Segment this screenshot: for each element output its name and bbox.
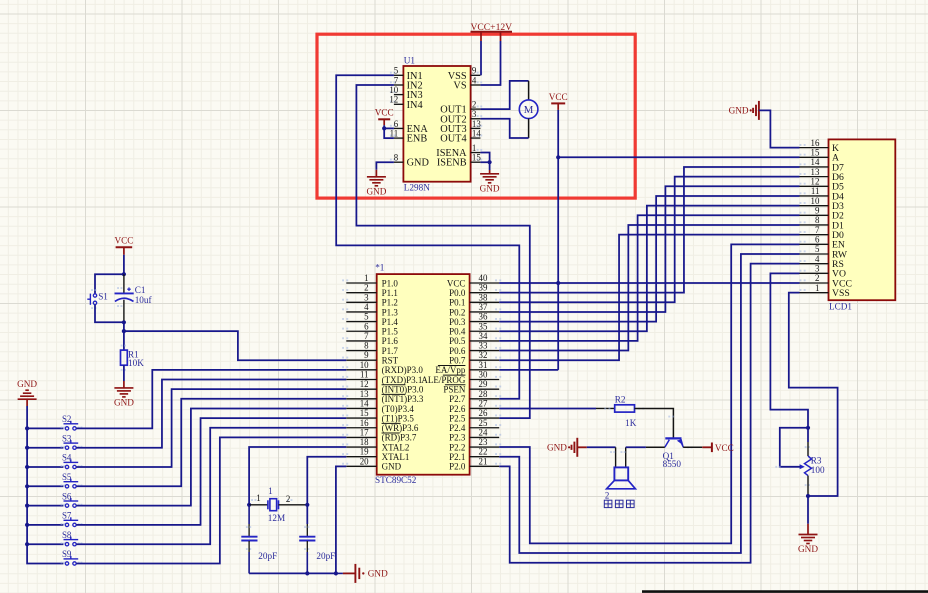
wire U1 IN2 to MCU P2.5	[356, 85, 529, 418]
svg-text:P1.1: P1.1	[382, 288, 398, 298]
svg-text:P2.1: P2.1	[449, 452, 465, 462]
wire MCU P0.4 to LCD D3	[499, 206, 799, 332]
MCU pin 28 P2.7	[470, 398, 500, 400]
svg-text:7: 7	[364, 331, 369, 341]
svg-text:39: 39	[479, 283, 488, 293]
LCD1 pin 7 D0	[800, 234, 829, 236]
MCU pin 12 (INT0)P3.0	[346, 388, 376, 390]
svg-text:2: 2	[472, 100, 476, 110]
ground symbol at buzzer	[576, 438, 578, 457]
wire rail to S7	[27, 524, 63, 526]
junction node rail S3	[25, 446, 29, 450]
svg-text:10uf: 10uf	[135, 295, 153, 305]
svg-text:ENB: ENB	[407, 134, 428, 145]
LCD1 pin 11 D4	[800, 195, 829, 197]
svg-text:S9: S9	[62, 549, 72, 559]
wire MCU P0.0 to LCD D7	[499, 167, 799, 293]
resistor R2 body	[615, 405, 635, 412]
svg-text:35: 35	[479, 321, 488, 331]
svg-text:5: 5	[815, 244, 820, 254]
junction node rail MCU GND	[334, 571, 338, 575]
junction node crystal pin2	[305, 503, 309, 507]
svg-text:8550: 8550	[663, 459, 682, 469]
transistor Q1 8550	[665, 437, 681, 439]
wire switch ground rail	[27, 406, 63, 564]
svg-text:1: 1	[472, 143, 476, 153]
svg-text:P1.4: P1.4	[382, 317, 399, 327]
wire VCC to U1 ENB	[384, 128, 394, 138]
svg-text:29: 29	[479, 379, 488, 389]
svg-text:R3: R3	[811, 455, 822, 465]
svg-text:14: 14	[360, 398, 369, 408]
U1 pin 14 OUT4	[471, 137, 481, 139]
junction node rail S6	[25, 504, 29, 508]
wire U1 OUT2 to motor bottom	[480, 119, 528, 138]
capacitor C1 bottom lead	[123, 300, 125, 323]
ground symbol below R1	[123, 381, 125, 388]
svg-text:P2.6: P2.6	[449, 404, 466, 414]
svg-text:GND: GND	[407, 158, 430, 169]
U1 pin 8 GND	[394, 161, 404, 163]
svg-text:17: 17	[360, 427, 369, 437]
wire rail to S8	[27, 543, 63, 545]
ground symbol at switch rail (inverted)	[18, 398, 37, 400]
wire R3 top to wiper	[780, 428, 808, 467]
switch S2	[65, 427, 68, 430]
MCU pin 37 P0.2	[470, 311, 500, 313]
svg-text:40: 40	[479, 273, 488, 283]
svg-text:10K: 10K	[128, 358, 144, 368]
svg-text:VCC: VCC	[375, 108, 394, 118]
wire VCC+12V to U1 VSS pin 9	[480, 41, 482, 75]
wire MCU P0.1 to LCD D6	[499, 177, 799, 303]
U1 pin 7 IN2	[394, 84, 404, 86]
switch S5	[65, 485, 68, 488]
svg-text:GND: GND	[114, 398, 134, 408]
U1 pin 9 VSS	[471, 74, 481, 76]
svg-text:25: 25	[479, 418, 488, 428]
LCD1 pin 6 EN	[800, 243, 829, 245]
MCU pin 17 (RD)P3.7	[346, 436, 376, 438]
svg-text:5: 5	[364, 312, 369, 322]
svg-text:(INT1)P3.3: (INT1)P3.3	[382, 394, 424, 404]
svg-text:14: 14	[811, 157, 820, 167]
potentiometer R3 body	[807, 428, 809, 442]
svg-text:13: 13	[360, 389, 369, 399]
svg-text:13: 13	[472, 119, 481, 129]
svg-text:20: 20	[360, 456, 369, 466]
svg-text:P1.6: P1.6	[382, 336, 399, 346]
svg-text:15: 15	[811, 147, 820, 157]
svg-text:7: 7	[815, 225, 820, 235]
svg-text:36: 36	[479, 312, 488, 322]
MCU pin 27 P2.6	[470, 407, 500, 409]
wire VCC row MCU pin40 to LCD VCC pin2	[499, 282, 799, 284]
power port VCC at Q1	[702, 446, 712, 448]
wire VCC to MCU EA/Vpp pin 31	[499, 369, 558, 371]
junction node VCC/ENA/ENB	[382, 126, 386, 130]
LCD1 pin 14 D7	[800, 166, 829, 168]
svg-text:(T0)P3.4: (T0)P3.4	[382, 404, 415, 414]
svg-text:2: 2	[364, 283, 368, 293]
LCD1 pin 8 D1	[800, 224, 829, 226]
U1 pin 11 ENB	[394, 137, 404, 139]
svg-text:2: 2	[815, 273, 819, 283]
wire R3 bottom to LCD VSS pin1	[789, 293, 838, 496]
svg-text:100: 100	[811, 465, 825, 475]
svg-text:P0.7: P0.7	[449, 356, 466, 366]
MCU pin 38 P0.1	[470, 301, 500, 303]
svg-text:20pF: 20pF	[316, 551, 335, 561]
svg-text:1: 1	[815, 283, 819, 293]
svg-text:ISENB: ISENB	[437, 158, 467, 169]
wire U1 IN1 to MCU P2.7	[336, 75, 519, 399]
LCD1 body	[829, 139, 896, 300]
svg-text:GND: GND	[368, 569, 388, 579]
svg-text:34: 34	[479, 331, 488, 341]
wire S9 to MCU P3.7	[76, 437, 346, 563]
svg-text:16: 16	[360, 418, 369, 428]
wire MCU XTAL1 pin19 to crystal	[307, 457, 346, 505]
svg-text:16: 16	[811, 138, 820, 148]
MCU pin 40 VCC	[470, 282, 500, 284]
wire S7 to MCU P3.5	[76, 418, 346, 525]
wire R1 to ground	[123, 365, 125, 381]
svg-text:28: 28	[479, 389, 488, 399]
svg-text:P1.2: P1.2	[382, 298, 398, 308]
svg-text:15: 15	[360, 408, 369, 418]
MCU pin 3 P1.2	[346, 301, 376, 303]
microcontroller U2 body (STC89C52)	[377, 274, 470, 475]
buzzer left lead	[615, 447, 617, 467]
junction node S1/C1 top	[122, 272, 126, 276]
switch S6	[65, 504, 68, 507]
svg-text:13: 13	[811, 167, 820, 177]
svg-text:15: 15	[472, 153, 481, 163]
MCU pin 10 (RXD)P3.0	[346, 369, 376, 371]
svg-text:9: 9	[815, 206, 820, 216]
svg-text:(TXD)P3.1: (TXD)P3.1	[382, 375, 423, 385]
crystal Y1 right lead	[279, 504, 308, 506]
svg-text:M: M	[524, 104, 534, 116]
switch S3	[65, 446, 68, 449]
U1 pin 6 ENA	[394, 127, 404, 129]
svg-text:12: 12	[389, 95, 398, 105]
MCU pin 18 XTAL2	[346, 446, 376, 448]
wire LCD VO pin3 to R3 top	[770, 273, 808, 427]
ground symbol at oscillator rail	[354, 564, 356, 583]
motor M top lead	[528, 81, 530, 100]
wire LCD RS pin4 to MCU P2.0	[499, 264, 799, 563]
crystal Y1 body 12M	[267, 500, 269, 509]
svg-text:10: 10	[811, 196, 820, 206]
U1 pin 13 OUT3	[471, 127, 481, 129]
capacitor C2 top lead	[248, 505, 250, 524]
MCU pin 23 P2.2	[470, 446, 500, 448]
svg-text:2: 2	[286, 494, 290, 504]
LCD1 pin 10 D3	[800, 205, 829, 207]
svg-text:(WR)P3.6: (WR)P3.6	[382, 423, 419, 433]
capacitor C3 bottom lead	[306, 541, 308, 552]
MCU pin 7 P1.6	[346, 340, 376, 342]
U1 pin 2 OUT1	[471, 108, 481, 110]
junction node rail S5	[25, 484, 29, 488]
svg-text:P2.7: P2.7	[449, 394, 466, 404]
svg-text:4: 4	[364, 302, 369, 312]
ground symbol at LCD backlight K	[758, 101, 760, 120]
svg-text:(RD)P3.7: (RD)P3.7	[382, 433, 417, 443]
wire MCU P2.6 to R2	[499, 407, 596, 409]
svg-text:P2.2: P2.2	[449, 442, 465, 452]
MCU pin 31 EA/Vpp	[470, 369, 500, 371]
MCU pin 24 P2.3	[470, 436, 500, 438]
MCU pin 35 P0.4	[470, 330, 500, 332]
wire node to RST branch node	[123, 322, 125, 331]
U1 pin 15 ISENB	[471, 161, 481, 163]
svg-text:VCC: VCC	[549, 92, 568, 102]
R3 wiper arrow	[800, 464, 805, 469]
svg-text:P0.6: P0.6	[449, 346, 466, 356]
LCD1 pin 5 RW	[800, 253, 829, 255]
LCD1 pin 13 D6	[800, 176, 829, 178]
svg-text:P0.0: P0.0	[449, 288, 466, 298]
switch S7	[65, 523, 68, 526]
motor M bottom lead	[528, 119, 530, 139]
svg-text:6: 6	[815, 235, 820, 245]
svg-text:S4: S4	[62, 453, 72, 463]
svg-text:(RXD)P3.0: (RXD)P3.0	[382, 365, 424, 375]
svg-text:EA/Vpp: EA/Vpp	[435, 365, 465, 375]
svg-text:30: 30	[479, 370, 488, 380]
wire oscillator ground rail	[249, 572, 336, 574]
svg-text:20pF: 20pF	[258, 551, 277, 561]
junction node rail S7	[25, 523, 29, 527]
svg-text:OUT4: OUT4	[440, 134, 466, 145]
wire rail to S3	[27, 447, 63, 449]
svg-text:VCC: VCC	[447, 278, 466, 288]
wire RST node to MCU RST pin 9	[124, 331, 346, 360]
svg-text:STC89C52: STC89C52	[375, 475, 417, 485]
junction node VCC/LCD-A wire	[556, 155, 560, 159]
svg-text:PSEN: PSEN	[443, 384, 466, 394]
junction node rail S2	[25, 426, 29, 430]
wire MCU P0.6 to LCD D1	[499, 225, 799, 351]
wire ISENB node down to ground	[480, 162, 489, 170]
wire ground to LCD K pin16	[759, 110, 800, 147]
svg-text:9: 9	[472, 66, 477, 76]
LCD1 pin 1 VSS	[800, 292, 829, 294]
svg-text:(T1)P3.5: (T1)P3.5	[382, 413, 415, 423]
capacitor C1 (electrolytic)	[115, 292, 134, 294]
MCU pin 26 P2.5	[470, 417, 500, 419]
svg-text:12: 12	[360, 379, 369, 389]
svg-text:3: 3	[472, 109, 477, 119]
MCU pin 16 (WR)P3.6	[346, 427, 376, 429]
resistor R1 body	[121, 350, 128, 365]
wire S3 to MCU P3.1	[76, 380, 346, 448]
LCD1 pin 15 A	[800, 156, 829, 158]
wire Q1 emitter to VCC port	[683, 446, 702, 448]
svg-text:GND: GND	[382, 462, 402, 472]
svg-text:S8: S8	[62, 530, 72, 540]
wire MCU XTAL2 pin18 to crystal	[249, 447, 346, 505]
wire VCC+12V to U1 VS pin 4	[480, 41, 500, 85]
junction node RST branch	[122, 329, 126, 333]
svg-text:31: 31	[479, 360, 488, 370]
switch S8	[65, 543, 68, 546]
wire VCC down to S1/C1 node	[123, 255, 125, 274]
svg-text:LCD1: LCD1	[829, 302, 852, 312]
MCU pin 6 P1.5	[346, 330, 376, 332]
svg-text:2: 2	[605, 491, 609, 501]
svg-text:P0.1: P0.1	[449, 298, 465, 308]
svg-text:3: 3	[815, 264, 820, 274]
svg-text:P1.5: P1.5	[382, 327, 399, 337]
buzzer value label (Chinese)	[604, 500, 612, 507]
wire node to R1	[123, 331, 125, 350]
U1 pin 1 ISENA	[471, 152, 481, 154]
wire U1 OUT1 to motor top	[480, 81, 528, 109]
svg-text:3: 3	[364, 292, 369, 302]
buzzer right lead	[625, 447, 627, 467]
svg-text:12: 12	[811, 177, 820, 187]
wire buzzer pin 2 to Q1 collector	[626, 446, 646, 448]
switch S9	[65, 562, 68, 565]
MCU pin 34 P0.5	[470, 340, 500, 342]
svg-text:*1: *1	[375, 263, 385, 273]
wire rail to S4	[27, 466, 63, 468]
svg-text:6: 6	[394, 119, 399, 129]
svg-text:23: 23	[479, 437, 488, 447]
svg-text:24: 24	[479, 427, 488, 437]
svg-text:7: 7	[394, 75, 399, 85]
U1 pin 3 OUT2	[471, 118, 481, 120]
svg-text:GND: GND	[729, 106, 749, 116]
junction node crystal pin1	[247, 503, 251, 507]
wire MCU GND pin20 to rail	[336, 466, 346, 573]
svg-text:1K: 1K	[625, 418, 637, 428]
svg-text:18: 18	[360, 437, 369, 447]
wire S6 to MCU P3.4	[76, 408, 346, 505]
svg-text:12M: 12M	[268, 513, 285, 523]
LCD1 pin 16 K	[800, 147, 829, 149]
svg-text:P2.5: P2.5	[449, 413, 466, 423]
wire VCC vertical rail	[557, 110, 559, 370]
junction node R3 top	[806, 426, 810, 430]
svg-text:P0.5: P0.5	[449, 336, 466, 346]
LCD1 pin 2 VCC	[800, 282, 829, 284]
svg-text:32: 32	[479, 350, 488, 360]
svg-text:22: 22	[479, 447, 488, 457]
MCU pin 15 (T1)P3.5	[346, 417, 376, 419]
svg-text:11: 11	[360, 370, 369, 380]
ground symbol at U1 ISEN pins	[489, 170, 491, 174]
svg-text:8: 8	[394, 153, 399, 163]
svg-text:IN4: IN4	[407, 100, 423, 111]
svg-text:8: 8	[815, 215, 820, 225]
wire S8 to MCU P3.6	[76, 428, 346, 544]
red highlight rectangle	[317, 34, 635, 198]
junction node rail C3	[305, 571, 309, 575]
U1 pin 12 IN4	[394, 103, 404, 105]
wire crystal pin2 down to rail	[306, 505, 308, 524]
ground symbol at U1 pin 8	[375, 170, 377, 177]
switch rail ground stem	[26, 399, 28, 406]
svg-text:L298N: L298N	[404, 182, 430, 192]
wire U1 ISENA to ISENB node	[480, 153, 489, 163]
svg-text:GND: GND	[798, 544, 818, 554]
wire switch S1 bottom to node	[95, 305, 124, 323]
svg-text:1: 1	[256, 493, 260, 503]
capacitor C2 bottom lead	[248, 541, 250, 552]
buzzer LS1 body	[614, 467, 628, 480]
MCU pin 32 P0.7	[470, 359, 500, 361]
svg-text:1: 1	[268, 486, 272, 496]
ground symbol below R3	[807, 524, 809, 535]
svg-text:P0.3: P0.3	[449, 317, 466, 327]
MCU pin 4 P1.3	[346, 311, 376, 313]
svg-text:P0.4: P0.4	[449, 327, 466, 337]
svg-text:6: 6	[364, 321, 369, 331]
svg-text:(INT0)P3.0: (INT0)P3.0	[382, 384, 424, 394]
svg-text:GND: GND	[17, 379, 37, 389]
crystal Y1 left lead	[249, 504, 268, 506]
svg-text:27: 27	[479, 398, 488, 408]
MCU pin 9 RST	[346, 359, 376, 361]
svg-text:S6: S6	[62, 491, 72, 501]
svg-text:37: 37	[479, 302, 488, 312]
LCD1 pin 4 RS	[800, 263, 829, 265]
MCU pin 8 P1.7	[346, 350, 376, 352]
capacitor C3 20pF	[299, 536, 315, 538]
U1 pin 5 IN1	[394, 74, 404, 76]
svg-text:21: 21	[479, 456, 488, 466]
svg-text:P2.4: P2.4	[449, 423, 466, 433]
MCU pin 19 XTAL1	[346, 456, 376, 458]
junction node rail S8	[25, 542, 29, 546]
resistor R2 left lead	[596, 407, 615, 409]
op-amp U1 body (L298N)	[403, 66, 470, 182]
svg-text:P2.3: P2.3	[449, 433, 466, 443]
MCU pin 14 (T0)P3.4	[346, 407, 376, 409]
svg-text:S7: S7	[62, 511, 72, 521]
U1 pin 4 VS	[471, 84, 481, 86]
svg-text:1: 1	[364, 273, 368, 283]
U1 pin 10 IN3	[394, 94, 404, 96]
wire ground to buzzer pin 1	[577, 446, 587, 448]
svg-text:P1.0: P1.0	[382, 278, 399, 288]
svg-text:VS: VS	[453, 81, 466, 92]
svg-text:P1.7: P1.7	[382, 346, 399, 356]
switch S1	[93, 294, 96, 297]
LCD1 pin 3 VO	[800, 272, 829, 274]
wire R3 bottom to ground	[807, 496, 809, 524]
svg-text:RST: RST	[382, 356, 399, 366]
capacitor C2 20pF	[241, 536, 257, 538]
MCU pin 25 P2.4	[470, 427, 500, 429]
wire S4 to MCU P3.2	[76, 389, 346, 467]
MCU pin 39 P0.0	[470, 292, 500, 294]
MCU pin 2 P1.1	[346, 292, 376, 294]
svg-text:S1: S1	[98, 291, 108, 301]
svg-text:11: 11	[811, 186, 820, 196]
junction node S1/C1 bottom	[122, 320, 126, 324]
svg-text:S3: S3	[62, 433, 72, 443]
wire rail to S6	[27, 505, 63, 507]
junction node R3 bottom	[806, 494, 810, 498]
wire MCU P0.7 to LCD D0	[499, 235, 799, 361]
wire MCU P0.3 to LCD D4	[499, 196, 799, 322]
